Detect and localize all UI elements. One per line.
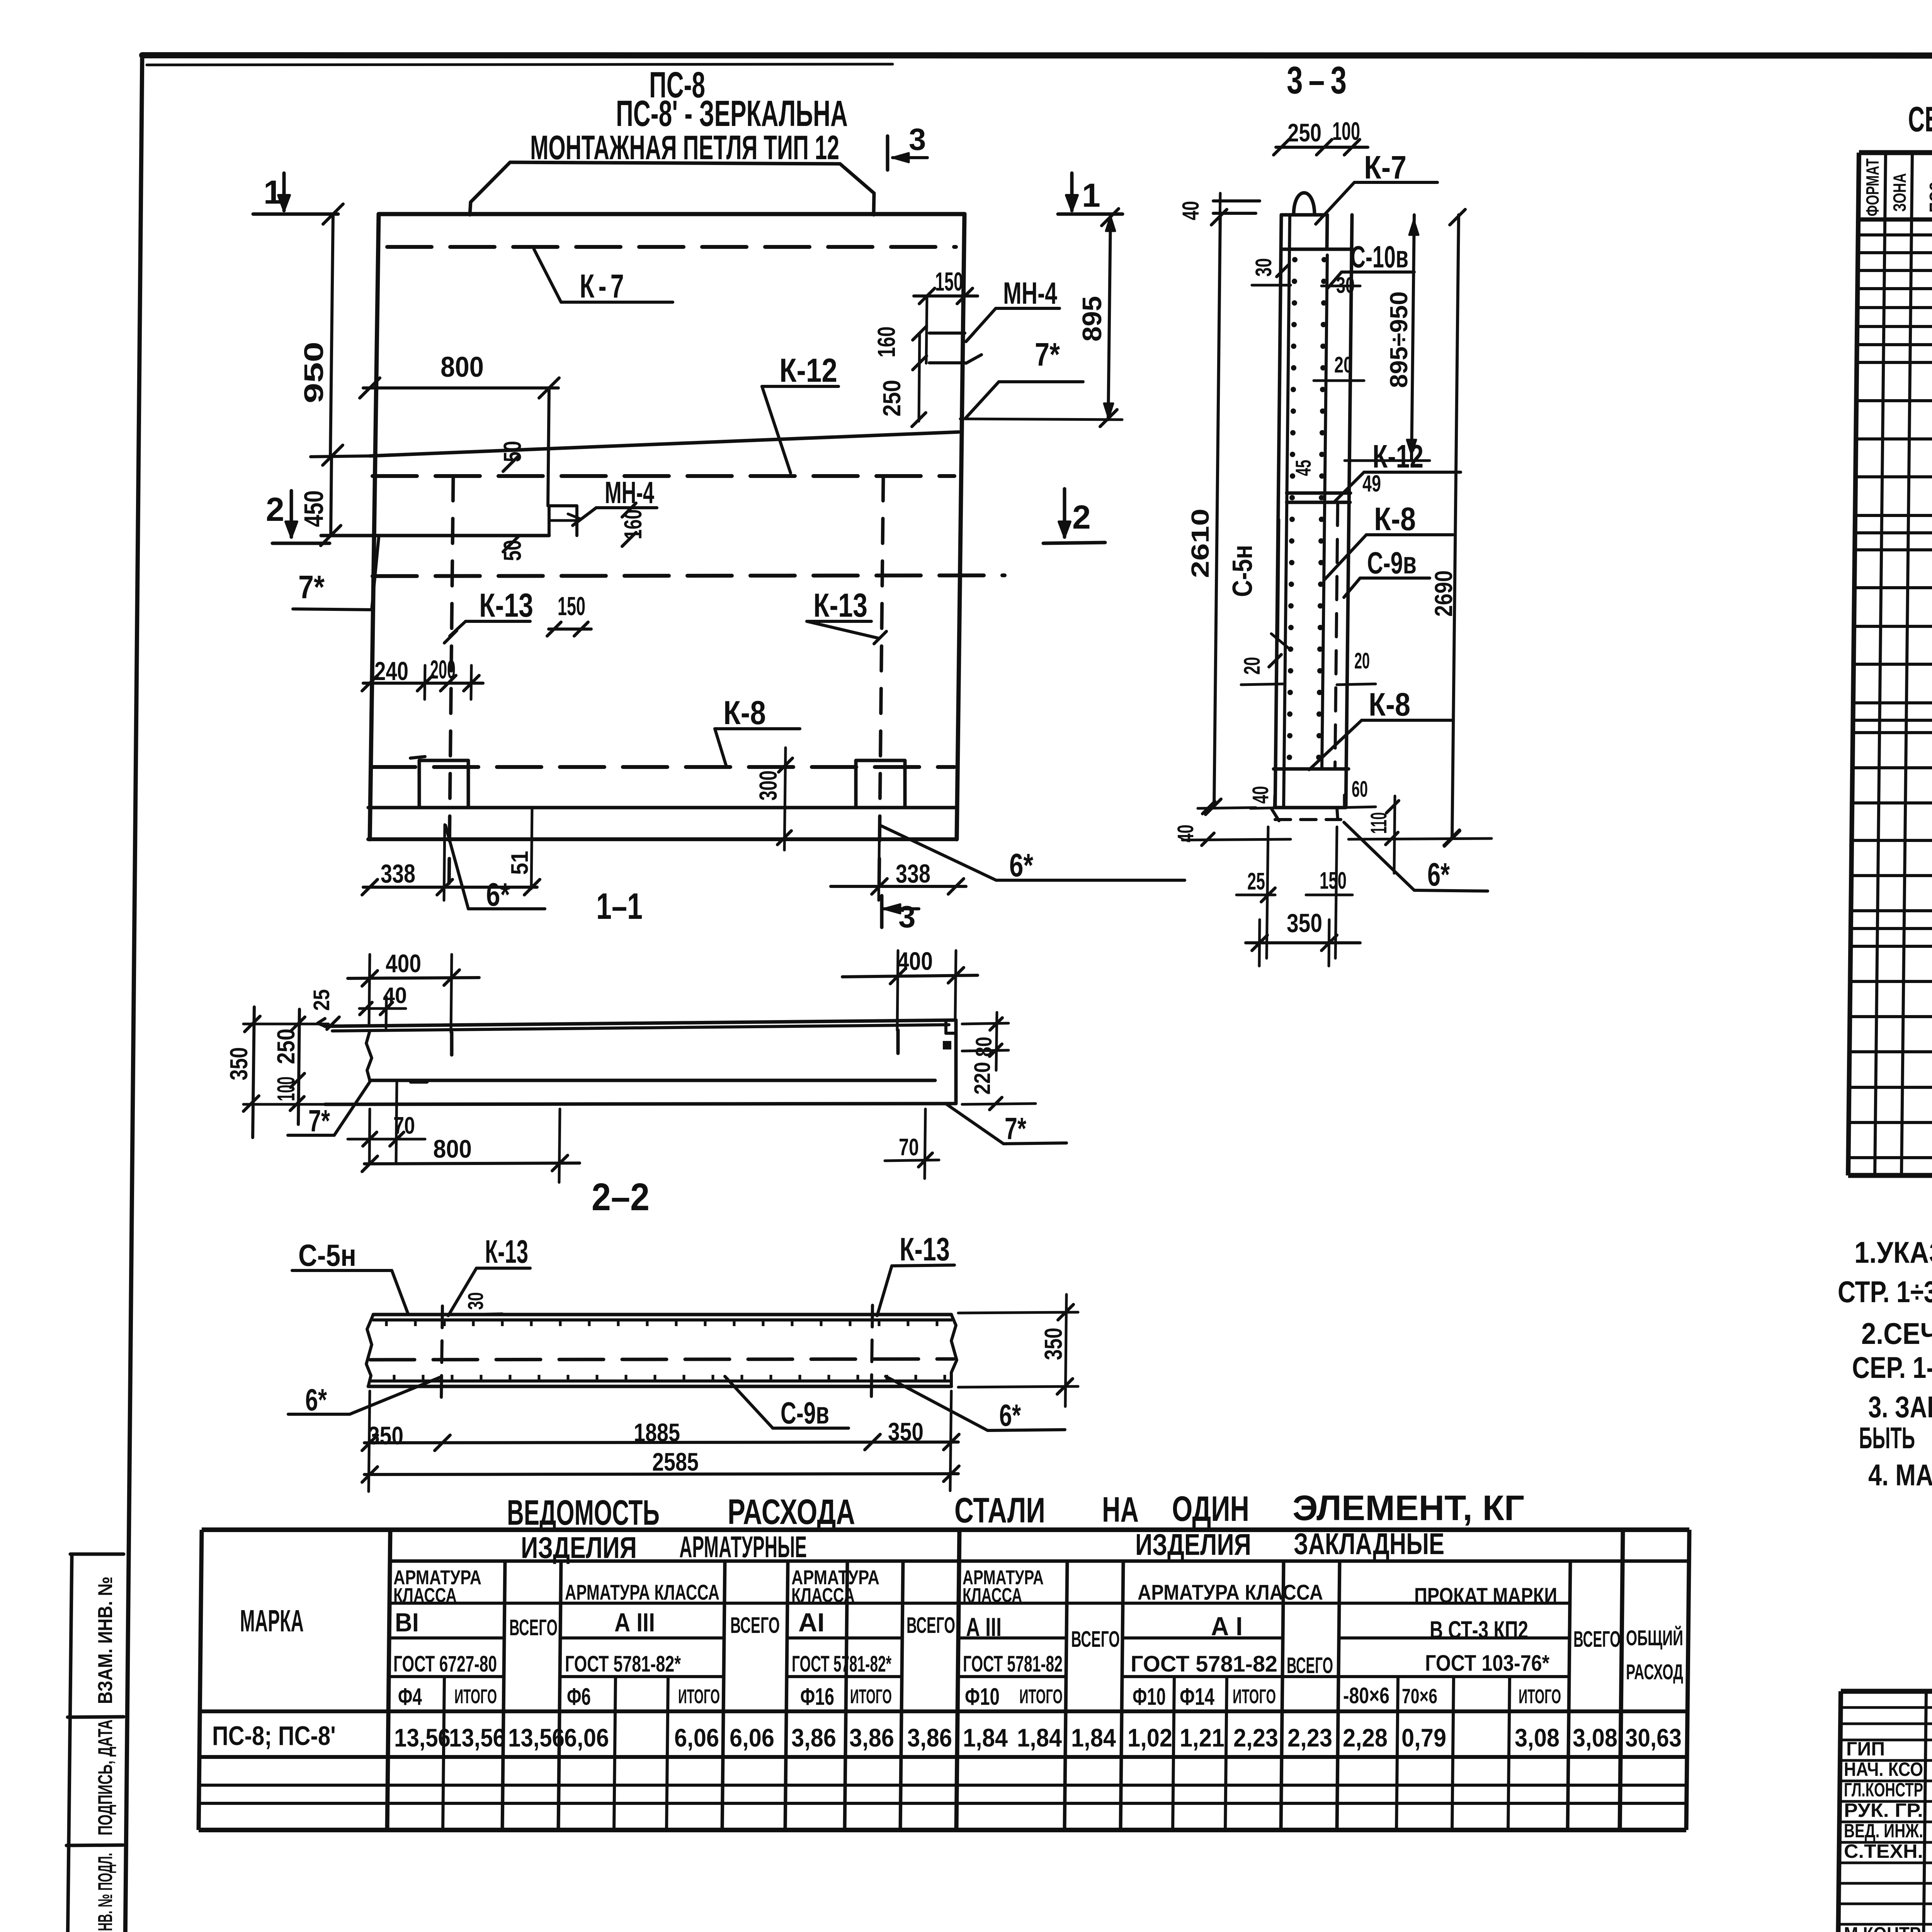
svg-text:7*: 7* <box>1035 336 1060 372</box>
svg-text:250: 250 <box>878 380 906 417</box>
svg-text:СТР. 1÷3 ЛЛ.III СЕР. 1-335 А: СТР. 1÷3 ЛЛ.III СЕР. 1-335 АТ. <box>1838 1275 1932 1309</box>
svg-text:895: 895 <box>1077 296 1107 342</box>
plan rebar ticks top <box>385 1320 388 1326</box>
svg-text:800: 800 <box>433 1134 472 1163</box>
dimension 450 left <box>331 455 332 536</box>
section 2-2 right end step <box>954 1020 958 1104</box>
sheet frame border <box>142 55 1932 56</box>
svg-text:100: 100 <box>1332 117 1360 145</box>
svg-text:350: 350 <box>888 1417 923 1446</box>
steel consumption table grid <box>202 1527 1689 1532</box>
panel slope line <box>370 432 959 456</box>
svg-text:1,84: 1,84 <box>963 1723 1008 1752</box>
svg-text:МАРКА: МАРКА <box>240 1604 304 1638</box>
svg-text:350: 350 <box>368 1421 403 1450</box>
svg-text:НАЧ. КСО: НАЧ. КСО <box>1844 1759 1923 1780</box>
right support block <box>856 760 905 808</box>
svg-text:К-8: К-8 <box>1374 501 1416 537</box>
svg-text:ВСЕГО: ВСЕГО <box>1287 1653 1333 1678</box>
svg-text:150: 150 <box>558 592 585 621</box>
section 3-3 inner rebar dots <box>1292 257 1298 262</box>
svg-text:МОНТАЖНАЯ ПЕТЛЯ ТИП 12: МОНТАЖНАЯ ПЕТЛЯ ТИП 12 <box>530 128 839 167</box>
svg-text:РАСХОД: РАСХОД <box>1626 1660 1683 1684</box>
svg-text:А III: А III <box>966 1612 1002 1642</box>
embed plate lines right edge <box>929 332 965 335</box>
svg-text:350: 350 <box>225 1047 253 1080</box>
svg-text:С-5н: С-5н <box>1227 545 1258 597</box>
svg-text:450: 450 <box>299 490 329 527</box>
plan dashed centerline <box>370 1359 954 1360</box>
dimension 895 right <box>1108 215 1111 420</box>
svg-text:2.СЕЧЕНИЯ И ПРИВЯЗКИ КАРКАС: 2.СЕЧЕНИЯ И ПРИВЯЗКИ КАРКАСОВ СМ. ЛИСТЫ … <box>1861 1316 1932 1350</box>
panel outline right edge <box>957 214 964 839</box>
svg-text:1: 1 <box>264 174 282 211</box>
svg-text:3,08: 3,08 <box>1515 1723 1560 1752</box>
plan vertical dashed left <box>441 1306 442 1401</box>
svg-text:0,79: 0,79 <box>1401 1723 1446 1752</box>
svg-text:3,86: 3,86 <box>907 1723 952 1752</box>
svg-text:МН-4: МН-4 <box>1003 276 1057 310</box>
dashed rebar line K-7 <box>387 245 956 249</box>
svg-text:2,28: 2,28 <box>1343 1723 1388 1752</box>
svg-text:895÷950: 895÷950 <box>1385 291 1413 388</box>
svg-text:ГЛ.КОНСТР: ГЛ.КОНСТР <box>1844 1779 1923 1801</box>
svg-text:СБОРОЧНЫЕ: СБОРОЧНЫЕ <box>1908 100 1932 139</box>
svg-text:АРМАТУРНЫЕ: АРМАТУРНЫЕ <box>679 1530 807 1564</box>
svg-text:100: 100 <box>272 1077 300 1101</box>
svg-text:3. ЗАКЛАДНЫЕ ИЗДЕЛИЯ ОБОЗНАЧ: 3. ЗАКЛАДНЫЕ ИЗДЕЛИЯ ОБОЗНАЧЕННЫЕ ЗВЕЗДО… <box>1868 1390 1932 1424</box>
svg-text:Ф6: Ф6 <box>567 1684 591 1710</box>
vertical centerline right support <box>879 476 883 889</box>
svg-text:ИТОГО: ИТОГО <box>1519 1685 1561 1708</box>
svg-text:-80×6: -80×6 <box>1343 1683 1389 1708</box>
svg-text:110: 110 <box>1366 812 1391 834</box>
svg-text:ИТОГО: ИТОГО <box>1019 1685 1063 1708</box>
svg-text:ЗАКЛАДНЫЕ: ЗАКЛАДНЫЕ <box>1294 1527 1444 1561</box>
svg-text:3–3: 3–3 <box>1287 59 1352 102</box>
section 3-3 mid joint lines <box>1287 492 1350 495</box>
svg-text:С-5н: С-5н <box>298 1238 356 1272</box>
svg-text:ВЕД. ИНЖ.: ВЕД. ИНЖ. <box>1844 1820 1923 1842</box>
svg-text:2–2: 2–2 <box>592 1175 650 1219</box>
svg-text:6*: 6* <box>305 1383 327 1417</box>
svg-text:К-13: К-13 <box>485 1233 528 1270</box>
svg-text:300: 300 <box>754 770 782 801</box>
svg-text:К-8: К-8 <box>1369 686 1410 723</box>
svg-text:ОБЩИЙ: ОБЩИЙ <box>1626 1626 1683 1650</box>
section 2-2 left break edge <box>366 1031 372 1080</box>
svg-text:338: 338 <box>896 859 930 888</box>
svg-text:ГОСТ 6727-80: ГОСТ 6727-80 <box>393 1651 497 1677</box>
svg-text:2,23: 2,23 <box>1287 1723 1332 1752</box>
svg-text:ГИП: ГИП <box>1846 1738 1885 1760</box>
svg-text:220: 220 <box>970 1062 995 1095</box>
svg-text:КЛАССА: КЛАССА <box>393 1584 457 1607</box>
svg-text:Ф14: Ф14 <box>1180 1684 1214 1710</box>
svg-text:2,23: 2,23 <box>1233 1723 1278 1752</box>
dimension 800 <box>363 386 558 389</box>
svg-text:ВСЕГО: ВСЕГО <box>1071 1627 1120 1652</box>
svg-text:ИТОГО: ИТОГО <box>1233 1685 1276 1708</box>
dashed rebar line mid <box>372 474 954 478</box>
svg-text:7*: 7* <box>1005 1111 1027 1146</box>
svg-text:С-10в: С-10в <box>1350 240 1408 274</box>
svg-text:ПРОКАТ МАРКИ: ПРОКАТ МАРКИ <box>1414 1583 1557 1607</box>
svg-text:НА: НА <box>1102 1490 1139 1529</box>
title block outer and grid <box>1841 1689 1932 1694</box>
svg-text:40: 40 <box>1178 201 1204 220</box>
svg-text:30: 30 <box>463 1292 488 1310</box>
svg-text:40: 40 <box>1248 786 1273 804</box>
panel bottom edge <box>368 837 956 841</box>
svg-text:С-9в: С-9в <box>781 1396 829 1430</box>
svg-text:К-13: К-13 <box>479 587 533 624</box>
svg-text:1,02: 1,02 <box>1128 1723 1172 1752</box>
svg-text:АРМАТУРА КЛАССА: АРМАТУРА КЛАССА <box>565 1580 719 1604</box>
svg-text:ЗОНА: ЗОНА <box>1889 173 1910 212</box>
section 2-2 top surface <box>325 1020 956 1026</box>
svg-text:25: 25 <box>1247 868 1265 895</box>
panel outline left edge <box>370 214 379 839</box>
svg-text:1885: 1885 <box>634 1418 680 1447</box>
plan view outline <box>366 1315 373 1386</box>
svg-text:ПОЗ.: ПОЗ. <box>1926 178 1932 213</box>
svg-text:250: 250 <box>1287 118 1321 147</box>
svg-text:ВСЕГО: ВСЕГО <box>906 1613 955 1638</box>
svg-text:СЕР. 1-335 АТ.: СЕР. 1-335 АТ. <box>1852 1350 1932 1384</box>
svg-text:250: 250 <box>272 1029 300 1064</box>
svg-text:Ф10: Ф10 <box>1133 1684 1166 1710</box>
svg-text:ПС-8; ПС-8': ПС-8; ПС-8' <box>212 1721 336 1751</box>
svg-text:ФОРМАТ: ФОРМАТ <box>1862 158 1883 216</box>
svg-text:А I: А I <box>1211 1612 1243 1641</box>
svg-text:800: 800 <box>440 351 484 383</box>
svg-text:КЛАССА: КЛАССА <box>791 1584 855 1607</box>
section 3-3 mounting loop <box>1294 193 1315 215</box>
panel level line 450 left <box>321 534 549 537</box>
svg-text:2: 2 <box>266 491 284 528</box>
svg-text:70×6: 70×6 <box>1402 1685 1437 1708</box>
svg-text:К-12: К-12 <box>1372 438 1423 474</box>
svg-text:3,86: 3,86 <box>791 1723 836 1752</box>
plan dim line 2585 <box>364 1474 958 1475</box>
section 3-3 bottom block <box>1274 767 1349 771</box>
svg-text:ГОСТ 5781-82*: ГОСТ 5781-82* <box>565 1651 681 1677</box>
svg-text:45: 45 <box>1291 460 1315 476</box>
svg-text:70: 70 <box>899 1134 919 1161</box>
left support block <box>419 760 468 808</box>
svg-text:1: 1 <box>1082 177 1100 214</box>
svg-text:СТАЛИ: СТАЛИ <box>954 1491 1045 1530</box>
section 3-3 body outline <box>1275 215 1281 808</box>
svg-text:ВСЕГО: ВСЕГО <box>730 1613 780 1638</box>
svg-text:6*: 6* <box>999 1398 1021 1432</box>
svg-text:338: 338 <box>381 859 415 888</box>
svg-text:6,06: 6,06 <box>674 1723 719 1752</box>
svg-text:240: 240 <box>374 656 408 686</box>
section 2-2 mid line <box>370 1079 935 1082</box>
svg-text:1–1: 1–1 <box>596 886 643 927</box>
svg-text:БЫТЬ: БЫТЬ <box>1859 1421 1915 1455</box>
svg-text:6*: 6* <box>1427 856 1450 893</box>
svg-text:25: 25 <box>309 989 334 1011</box>
svg-text:2610: 2610 <box>1186 509 1214 578</box>
svg-text:ИТОГО: ИТОГО <box>678 1685 720 1708</box>
svg-text:13,56: 13,56 <box>508 1723 565 1752</box>
svg-text:20: 20 <box>1240 657 1265 675</box>
svg-text:1.УКАЗАНИЯ: 1.УКАЗАНИЯ <box>1854 1235 1932 1269</box>
svg-text:МН-4: МН-4 <box>605 475 654 510</box>
svg-text:С.ТЕХН.: С.ТЕХН. <box>1844 1840 1923 1862</box>
svg-text:20: 20 <box>1354 648 1370 673</box>
svg-text:РУК. ГР.: РУК. ГР. <box>1844 1799 1923 1821</box>
svg-text:А III: А III <box>614 1608 655 1637</box>
svg-text:3: 3 <box>909 122 926 156</box>
svg-text:6*: 6* <box>486 876 510 913</box>
svg-text:ЭЛЕМЕНТ, КГ: ЭЛЕМЕНТ, КГ <box>1293 1488 1524 1528</box>
svg-text:ВЗАМ. ИНВ. №: ВЗАМ. ИНВ. № <box>94 1577 117 1704</box>
svg-text:50: 50 <box>498 441 526 462</box>
svg-text:ГОСТ 5781-82*: ГОСТ 5781-82* <box>792 1651 891 1677</box>
dimension 950 left <box>330 214 333 455</box>
svg-text:К-13: К-13 <box>813 587 867 624</box>
svg-text:ВI: ВI <box>395 1608 419 1637</box>
svg-text:РАСХОДА: РАСХОДА <box>728 1492 855 1532</box>
assembly units table grid <box>1859 150 1932 155</box>
section 2-2 bottom line <box>325 1104 956 1104</box>
svg-text:3,86: 3,86 <box>849 1723 894 1752</box>
svg-text:400: 400 <box>386 949 421 978</box>
svg-text:30,63: 30,63 <box>1625 1723 1682 1752</box>
svg-text:950: 950 <box>299 342 329 403</box>
svg-text:К-7: К-7 <box>1364 149 1406 185</box>
svg-text:К-8: К-8 <box>723 694 766 731</box>
plan vertical dashed right <box>871 1305 872 1401</box>
svg-text:ИТОГО: ИТОГО <box>850 1685 892 1708</box>
svg-text:ВСЕГО: ВСЕГО <box>509 1615 558 1640</box>
svg-text:АРМАТУРА КЛАССА: АРМАТУРА КЛАССА <box>1138 1580 1323 1604</box>
svg-text:2585: 2585 <box>652 1447 699 1476</box>
svg-text:7*: 7* <box>298 569 325 605</box>
svg-text:АI: АI <box>798 1608 825 1637</box>
svg-text:ИЗДЕЛИЯ: ИЗДЕЛИЯ <box>521 1531 637 1565</box>
svg-text:13,56: 13,56 <box>394 1723 451 1752</box>
dashed rebar line bottom K-8 <box>371 765 954 769</box>
svg-text:13,56: 13,56 <box>449 1723 505 1752</box>
svg-text:1,21: 1,21 <box>1180 1723 1225 1752</box>
vertical centerline left support <box>449 476 453 889</box>
svg-text:ОДИН: ОДИН <box>1172 1489 1249 1529</box>
svg-text:К-12: К-12 <box>779 352 837 389</box>
svg-text:ВСЕГО: ВСЕГО <box>1573 1627 1621 1652</box>
svg-text:ИНВ. № ПОДЛ.: ИНВ. № ПОДЛ. <box>94 1853 117 1932</box>
svg-text:ИЗДЕЛИЯ: ИЗДЕЛИЯ <box>1135 1527 1251 1561</box>
plan dim line 350 1885 350 <box>364 1442 958 1443</box>
svg-text:Ф4: Ф4 <box>398 1684 422 1710</box>
svg-text:6,06: 6,06 <box>564 1723 609 1752</box>
svg-text:6,06: 6,06 <box>730 1723 774 1752</box>
panel outline top edge <box>379 212 964 216</box>
svg-text:350: 350 <box>1287 908 1322 938</box>
svg-text:51: 51 <box>507 851 533 875</box>
svg-text:ИТОГО: ИТОГО <box>454 1685 497 1708</box>
svg-text:К-13: К-13 <box>900 1231 950 1267</box>
svg-text:60: 60 <box>1352 777 1368 802</box>
svg-text:Ф10: Ф10 <box>965 1684 1000 1710</box>
MN-4 embed box mid-left <box>549 506 577 536</box>
svg-text:ГОСТ 103-76*: ГОСТ 103-76* <box>1425 1651 1549 1676</box>
section mark 1 right <box>1070 173 1074 211</box>
svg-text:7*: 7* <box>308 1104 330 1138</box>
svg-text:ВЕДОМОСТЬ: ВЕДОМОСТЬ <box>507 1493 660 1532</box>
svg-text:1,84: 1,84 <box>1017 1723 1062 1752</box>
svg-text:С-9в: С-9в <box>1367 546 1417 580</box>
svg-text:6*: 6* <box>1009 847 1033 883</box>
section mark 1 left <box>282 173 286 211</box>
svg-text:ПОДПИСЬ, ДАТА: ПОДПИСЬ, ДАТА <box>94 1719 117 1835</box>
svg-text:М.КОНТР.: М.КОНТР. <box>1844 1923 1923 1932</box>
panel bottom strip top line <box>368 806 956 810</box>
svg-text:КЛАССА: КЛАССА <box>963 1584 1022 1607</box>
svg-text:К-7: К-7 <box>580 268 628 305</box>
dashed rebar line lower <box>372 575 1005 576</box>
svg-text:ГОСТ 5781-82: ГОСТ 5781-82 <box>1131 1651 1277 1677</box>
svg-text:20: 20 <box>1334 352 1353 378</box>
svg-text:30: 30 <box>1251 258 1276 277</box>
svg-text:49: 49 <box>1362 471 1381 497</box>
svg-text:1,84: 1,84 <box>1071 1723 1116 1752</box>
svg-text:150: 150 <box>1320 867 1347 894</box>
left margin stamp strip <box>70 1553 124 1556</box>
svg-text:В СТ-3 КП2: В СТ-3 КП2 <box>1430 1616 1528 1644</box>
svg-text:3,08: 3,08 <box>1573 1723 1617 1752</box>
section 2-2 centerline stubs <box>450 1032 454 1055</box>
svg-text:2: 2 <box>1072 499 1091 536</box>
svg-text:150: 150 <box>935 267 963 296</box>
svg-text:350: 350 <box>1039 1328 1067 1360</box>
svg-text:160: 160 <box>872 327 900 357</box>
svg-text:Ф16: Ф16 <box>800 1684 834 1710</box>
svg-text:4. МАРКА КЕРАМЗИТОБЕТОНА ПО: 4. МАРКА КЕРАМЗИТОБЕТОНА ПО МОРОЗОСТОЙКО… <box>1868 1458 1932 1492</box>
svg-text:ГОСТ 5781-82: ГОСТ 5781-82 <box>963 1651 1063 1677</box>
